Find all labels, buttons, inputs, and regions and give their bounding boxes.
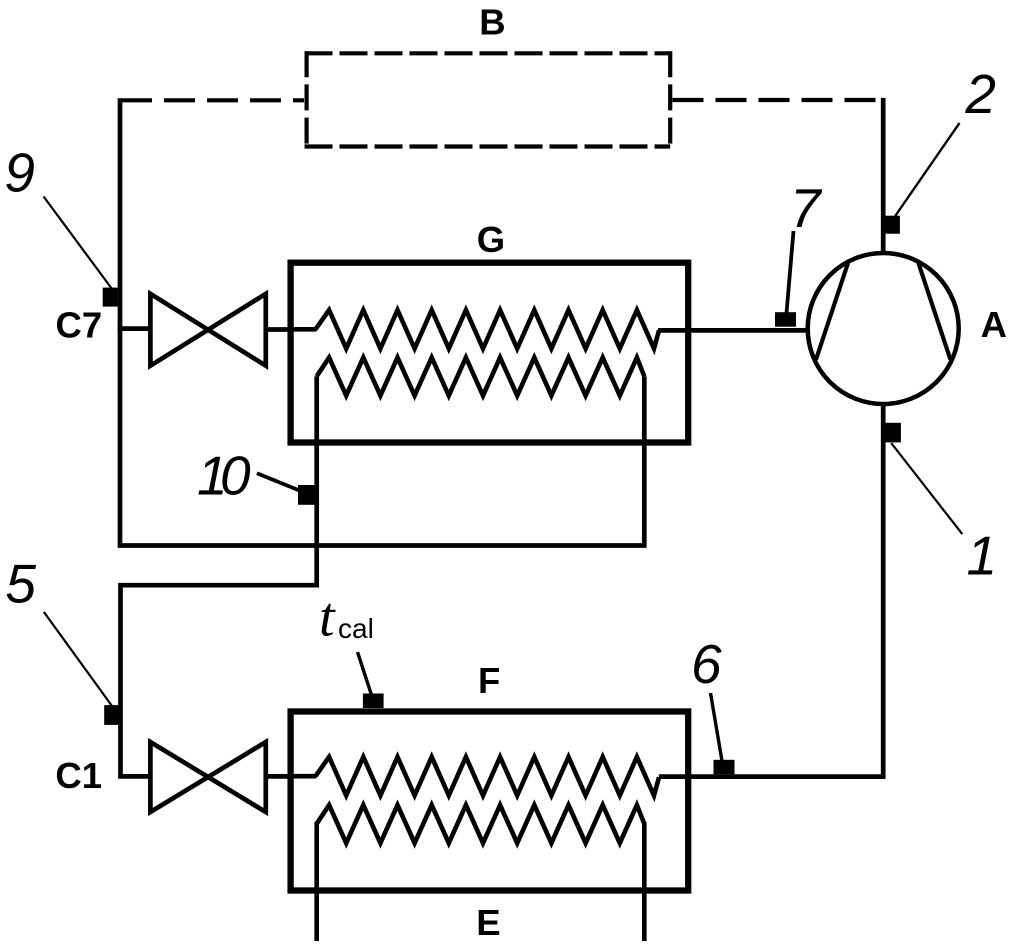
svg-text:C1: C1 <box>55 755 102 796</box>
svg-text:9: 9 <box>4 142 35 204</box>
svg-text:10: 10 <box>197 445 251 507</box>
svg-text:E: E <box>476 902 500 943</box>
svg-text:2: 2 <box>964 63 996 125</box>
svg-text:6: 6 <box>691 633 722 695</box>
svg-text:G: G <box>477 219 505 260</box>
svg-text:t: t <box>319 587 336 649</box>
svg-text:5: 5 <box>5 552 36 614</box>
svg-text:B: B <box>479 1 505 42</box>
svg-text:F: F <box>478 660 500 701</box>
svg-text:7: 7 <box>790 177 823 239</box>
svg-text:C7: C7 <box>56 304 103 345</box>
svg-text:1: 1 <box>967 525 998 587</box>
svg-text:cal: cal <box>338 613 374 644</box>
svg-text:A: A <box>981 304 1007 345</box>
